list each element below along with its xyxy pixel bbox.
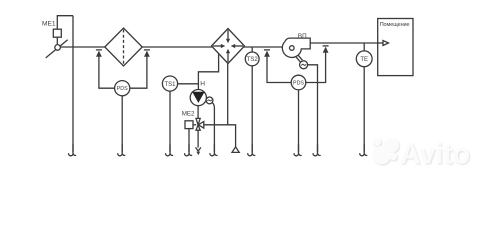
supply arrow (open) xyxy=(232,147,239,153)
svg-text:ME2: ME2 xyxy=(182,110,195,117)
wire pump to valve xyxy=(197,106,199,119)
wire TS1 right xyxy=(178,83,199,85)
svg-text:ME1: ME1 xyxy=(42,21,56,28)
wire damper branch down xyxy=(72,16,74,152)
drain chevron xyxy=(196,147,201,151)
drain arrow xyxy=(196,152,200,156)
fan motor xyxy=(300,61,308,69)
coil supply pipe from heater bottom xyxy=(227,63,229,125)
pressure tap left of fan xyxy=(264,50,270,57)
wire tap to PDS2 xyxy=(267,53,291,83)
wire tap to PDS1 xyxy=(130,53,147,88)
sensor PDS1 xyxy=(115,81,130,96)
watermark xyxy=(372,137,471,171)
valve outlet pipe xyxy=(204,125,236,147)
svg-text:H: H xyxy=(200,80,205,87)
squiggle xyxy=(210,144,218,155)
sensor TS2 stub xyxy=(251,47,253,52)
svg-text:PDS: PDS xyxy=(117,86,128,92)
svg-text:TS1: TS1 xyxy=(164,82,176,88)
heater arrow left xyxy=(213,45,221,47)
post-fan duct xyxy=(310,42,378,44)
heater arrow bottom xyxy=(227,53,229,62)
squiggle xyxy=(118,144,126,155)
squiggle xyxy=(294,144,302,155)
damper actuator ME1 xyxy=(53,29,61,37)
air damper pivot xyxy=(55,45,61,51)
pump motor wire xyxy=(212,103,214,152)
coil return pipe xyxy=(198,54,218,92)
three-way valve ME2 xyxy=(196,118,200,124)
wire PDS1 down xyxy=(121,96,123,152)
squiggle xyxy=(313,144,321,155)
squiggle xyxy=(185,144,193,155)
pressure tap left of filter xyxy=(96,50,102,57)
heater arrow right xyxy=(235,45,243,47)
wire ME2 down xyxy=(188,129,190,152)
squiggle xyxy=(360,144,368,155)
sensor TE stub xyxy=(363,43,365,51)
pump H xyxy=(190,90,206,106)
squiggle xyxy=(166,144,174,155)
wire ME1 control link xyxy=(57,16,73,30)
drain wire xyxy=(197,130,199,147)
sensor TS1 xyxy=(162,76,177,91)
svg-text:Avito: Avito xyxy=(400,139,470,171)
wire actuator to damper xyxy=(56,37,58,45)
wire TS2 down xyxy=(251,66,253,152)
pressure tap right of fan xyxy=(323,46,329,53)
svg-text:TE: TE xyxy=(360,57,368,63)
wire tap to PDS2 xyxy=(306,49,326,83)
sensor PDS2 xyxy=(291,75,306,90)
fan motor shaft xyxy=(296,56,301,61)
squiggle xyxy=(248,144,256,155)
svg-text:TS2: TS2 xyxy=(247,57,259,63)
filter media dashed xyxy=(123,30,125,65)
fan motor wire xyxy=(308,65,318,152)
svg-text:Помещение: Помещение xyxy=(380,22,410,28)
heater arrow top xyxy=(227,30,229,39)
filter xyxy=(105,28,142,66)
sensor TS2 xyxy=(245,52,259,66)
fan hub xyxy=(290,46,295,51)
supply duct line xyxy=(60,46,282,48)
squiggle xyxy=(69,144,77,155)
svg-text:PDS: PDS xyxy=(293,80,304,86)
wire TS1 down xyxy=(169,91,171,152)
valve actuator ME2 xyxy=(185,121,193,129)
wire PDS2 down xyxy=(298,90,300,152)
fan scroll xyxy=(282,38,310,57)
wire tap to PDS1 xyxy=(99,53,115,88)
pump motor xyxy=(206,97,213,104)
air damper blade xyxy=(46,40,68,58)
room box xyxy=(378,19,413,76)
wire TE down xyxy=(363,67,365,152)
heater xyxy=(212,29,245,64)
pressure tap right of filter xyxy=(144,50,150,57)
sensor TE xyxy=(356,51,372,67)
link ME2 to valve xyxy=(193,124,196,126)
diffuser arrow xyxy=(378,42,384,44)
